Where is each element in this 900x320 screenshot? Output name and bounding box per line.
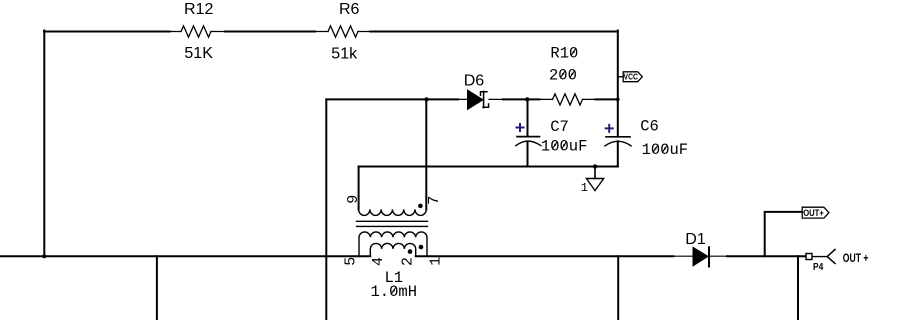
junction dot R10 right / vcc vertical [616, 98, 620, 102]
svg-text:4: 4 [370, 257, 387, 266]
wire thin leads of D6 and R10 [458, 98, 596, 100]
wire vertical below rail x157 [156, 256, 158, 320]
transformer L1 inner winding (pins 4-2) [370, 243, 415, 256]
svg-text:R12: R12 [184, 1, 213, 18]
svg-text:51k: 51k [331, 45, 358, 62]
wire capacitor C7 verticals [527, 99, 529, 166]
wire main rail [0, 255, 806, 257]
slashed zeros of C6 value [653, 145, 667, 152]
svg-text:7: 7 [426, 196, 443, 205]
svg-text:51K: 51K [184, 45, 213, 62]
svg-text:D6: D6 [464, 73, 485, 90]
resistor R12 [181, 26, 211, 37]
svg-text:VCC: VCC [624, 72, 639, 82]
wire vcc stub [619, 76, 624, 78]
connector P4 link wire [812, 256, 827, 258]
capacitor C7 plus sign [517, 124, 524, 131]
svg-text:OUT+: OUT+ [803, 207, 824, 218]
wire vertical below rail x618 [617, 256, 619, 320]
wire vcc vertical [617, 31, 619, 167]
junction dot pin7 / node wire [424, 97, 428, 101]
transformer phase dot outer winding [419, 245, 424, 250]
wire out+ stub [765, 212, 803, 256]
slashed zero of R10 [571, 49, 576, 56]
svg-text:D1: D1 [685, 231, 706, 248]
diode D6 [468, 90, 484, 110]
wire node y99 horizontal [326, 98, 618, 100]
svg-text:1: 1 [581, 181, 588, 195]
svg-text:C6: C6 [640, 118, 659, 136]
slashed zero of 1.0mH [391, 287, 396, 294]
out+ net flag [802, 207, 829, 218]
junction dot C7 top [525, 97, 529, 101]
wire top rail thin resistor leads [170, 31, 371, 33]
connector P4 chevron [827, 249, 835, 263]
svg-text:C7: C7 [550, 118, 569, 136]
connector P4 pin square [806, 254, 812, 260]
resistor R10 [553, 94, 583, 105]
wire vertical below rail x798 [797, 256, 799, 320]
svg-text:R10: R10 [550, 44, 578, 62]
diode D6 schottky cathode [481, 91, 489, 107]
wire switch-node vertical x326 [325, 99, 327, 320]
transformer L1 outer winding (pins 5-1) [359, 232, 427, 256]
transformer L1 top winding loops [359, 209, 427, 215]
svg-text:200: 200 [549, 67, 577, 85]
transformer L1 core lines [357, 221, 428, 226]
wire capacitor bottom rail [359, 166, 618, 168]
svg-text:100uF: 100uF [541, 138, 588, 156]
svg-text:5: 5 [343, 257, 360, 266]
wire thin leads of D1 [673, 255, 727, 257]
junction dot ground / cap rail [593, 164, 597, 168]
slashed zeros of 200 [560, 71, 574, 78]
transformer phase dot top winding [418, 204, 423, 209]
svg-text:100uF: 100uF [642, 141, 689, 159]
ground symbol [586, 179, 603, 191]
wire top rail [44, 31, 618, 33]
svg-text:1: 1 [427, 257, 444, 266]
slashed zeros of C7 value [552, 142, 566, 149]
svg-text:R6: R6 [339, 1, 360, 18]
svg-text:OUT +: OUT + [843, 253, 869, 266]
diode D1 [693, 247, 708, 265]
transformer L1 top winding left vertical (pin 9) [358, 167, 360, 210]
transformer phase dot inner winding [408, 249, 413, 254]
wire left vertical [43, 31, 45, 257]
svg-text:2: 2 [399, 257, 416, 266]
svg-text:1.0mH: 1.0mH [371, 283, 418, 301]
resistor R6 [328, 26, 358, 37]
svg-text:9: 9 [345, 195, 362, 204]
capacitor C7 [517, 136, 540, 138]
diode D1 cathode bar [708, 247, 710, 266]
vcc power flag [623, 72, 642, 82]
junction dot left vertical / main rail [42, 254, 46, 258]
wire ground stub [594, 167, 596, 179]
transformer L1 pin 7 vertical [425, 99, 427, 209]
capacitor C6 [606, 136, 630, 138]
svg-text:P4: P4 [813, 261, 824, 273]
capacitor C6 plus sign [606, 125, 613, 132]
